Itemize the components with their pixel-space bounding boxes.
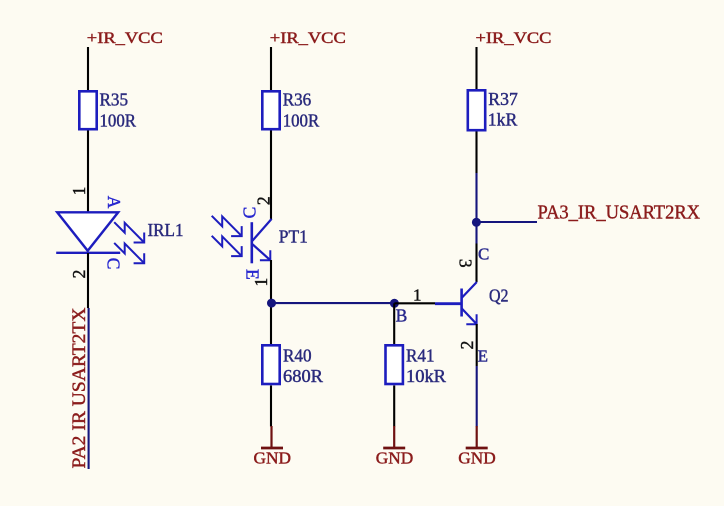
junction dot node B: [390, 299, 399, 308]
power +IR_VCC P3: [476, 30, 552, 47]
svg-text:R40: R40: [283, 345, 312, 365]
svg-text:1: 1: [69, 187, 89, 196]
svg-text:1: 1: [251, 278, 271, 287]
svg-text:C: C: [104, 258, 124, 270]
svg-text:E: E: [478, 346, 488, 365]
svg-text:1kR: 1kR: [488, 110, 518, 130]
svg-text:A: A: [104, 196, 124, 209]
svg-text:PA2 IR USART2TX: PA2 IR USART2TX: [70, 307, 90, 469]
svg-text:2: 2: [457, 341, 477, 350]
svg-text:GND: GND: [376, 449, 414, 468]
junction dot: [267, 299, 276, 308]
svg-text:+IR_VCC: +IR_VCC: [87, 30, 163, 47]
svg-text:C: C: [478, 245, 489, 264]
wire emitter pin: [476, 324, 478, 366]
wire: [270, 386, 272, 427]
junction dot: [472, 218, 481, 227]
net wire node B horizontal: [272, 302, 395, 304]
ground GND3: [458, 426, 496, 468]
svg-text:680R: 680R: [283, 366, 323, 386]
phototransistor PT1: [252, 219, 272, 263]
wire: [270, 260, 272, 344]
wire: [87, 131, 89, 213]
svg-text:10kR: 10kR: [406, 366, 446, 386]
svg-text:GND: GND: [254, 449, 292, 468]
net wire PA2: [88, 308, 90, 469]
svg-text:+IR_VCC: +IR_VCC: [476, 30, 552, 47]
LED emission arrow 2 of IRL1: [114, 243, 144, 263]
LED emission arrow 1 of IRL1: [114, 222, 144, 242]
wire: [475, 47, 477, 90]
resistor R36: [262, 89, 319, 130]
power +IR_VCC P2: [270, 30, 346, 47]
svg-text:PA3_IR_USART2RX: PA3_IR_USART2RX: [538, 203, 701, 224]
svg-text:C: C: [240, 207, 260, 219]
resistor R35: [79, 89, 136, 130]
wire base pin: [394, 302, 435, 304]
svg-text:IRL1: IRL1: [148, 220, 184, 240]
photo arrow 2 of PT1: [212, 236, 242, 256]
svg-text:1: 1: [413, 286, 422, 305]
resistor R37: [468, 89, 518, 130]
net wire: [475, 173, 477, 244]
svg-text:GND: GND: [458, 449, 496, 468]
wire: [393, 386, 395, 427]
svg-text:R41: R41: [406, 345, 435, 365]
wire collector pin: [475, 244, 477, 283]
svg-text:Q2: Q2: [489, 286, 509, 306]
svg-text:100R: 100R: [100, 110, 137, 130]
wire: [393, 303, 395, 344]
svg-text:+IR_VCC: +IR_VCC: [270, 30, 346, 47]
net wire: [476, 366, 478, 427]
svg-text:R36: R36: [283, 89, 312, 109]
svg-text:2: 2: [253, 196, 273, 205]
diode IRL1: [56, 212, 120, 253]
power +IR_VCC P1: [87, 30, 163, 47]
svg-text:R35: R35: [100, 89, 129, 109]
ground GND1: [254, 426, 292, 468]
svg-text:100R: 100R: [283, 110, 320, 130]
photo arrow 1 of PT1: [212, 216, 242, 236]
wire: [475, 132, 477, 174]
wire: [270, 47, 272, 91]
svg-text:B: B: [396, 305, 408, 325]
wire: [87, 253, 89, 308]
svg-text:PT1: PT1: [279, 226, 308, 246]
resistor R41: [386, 345, 447, 386]
wire: [270, 131, 272, 220]
svg-text:R37: R37: [488, 89, 518, 109]
svg-text:3: 3: [455, 259, 475, 268]
svg-text:2: 2: [69, 270, 89, 279]
ground GND2: [376, 426, 414, 468]
net wire PA3 horizontal: [476, 221, 537, 223]
transistor Q2: [435, 282, 477, 324]
resistor R40: [262, 345, 323, 386]
wire: [87, 47, 89, 91]
